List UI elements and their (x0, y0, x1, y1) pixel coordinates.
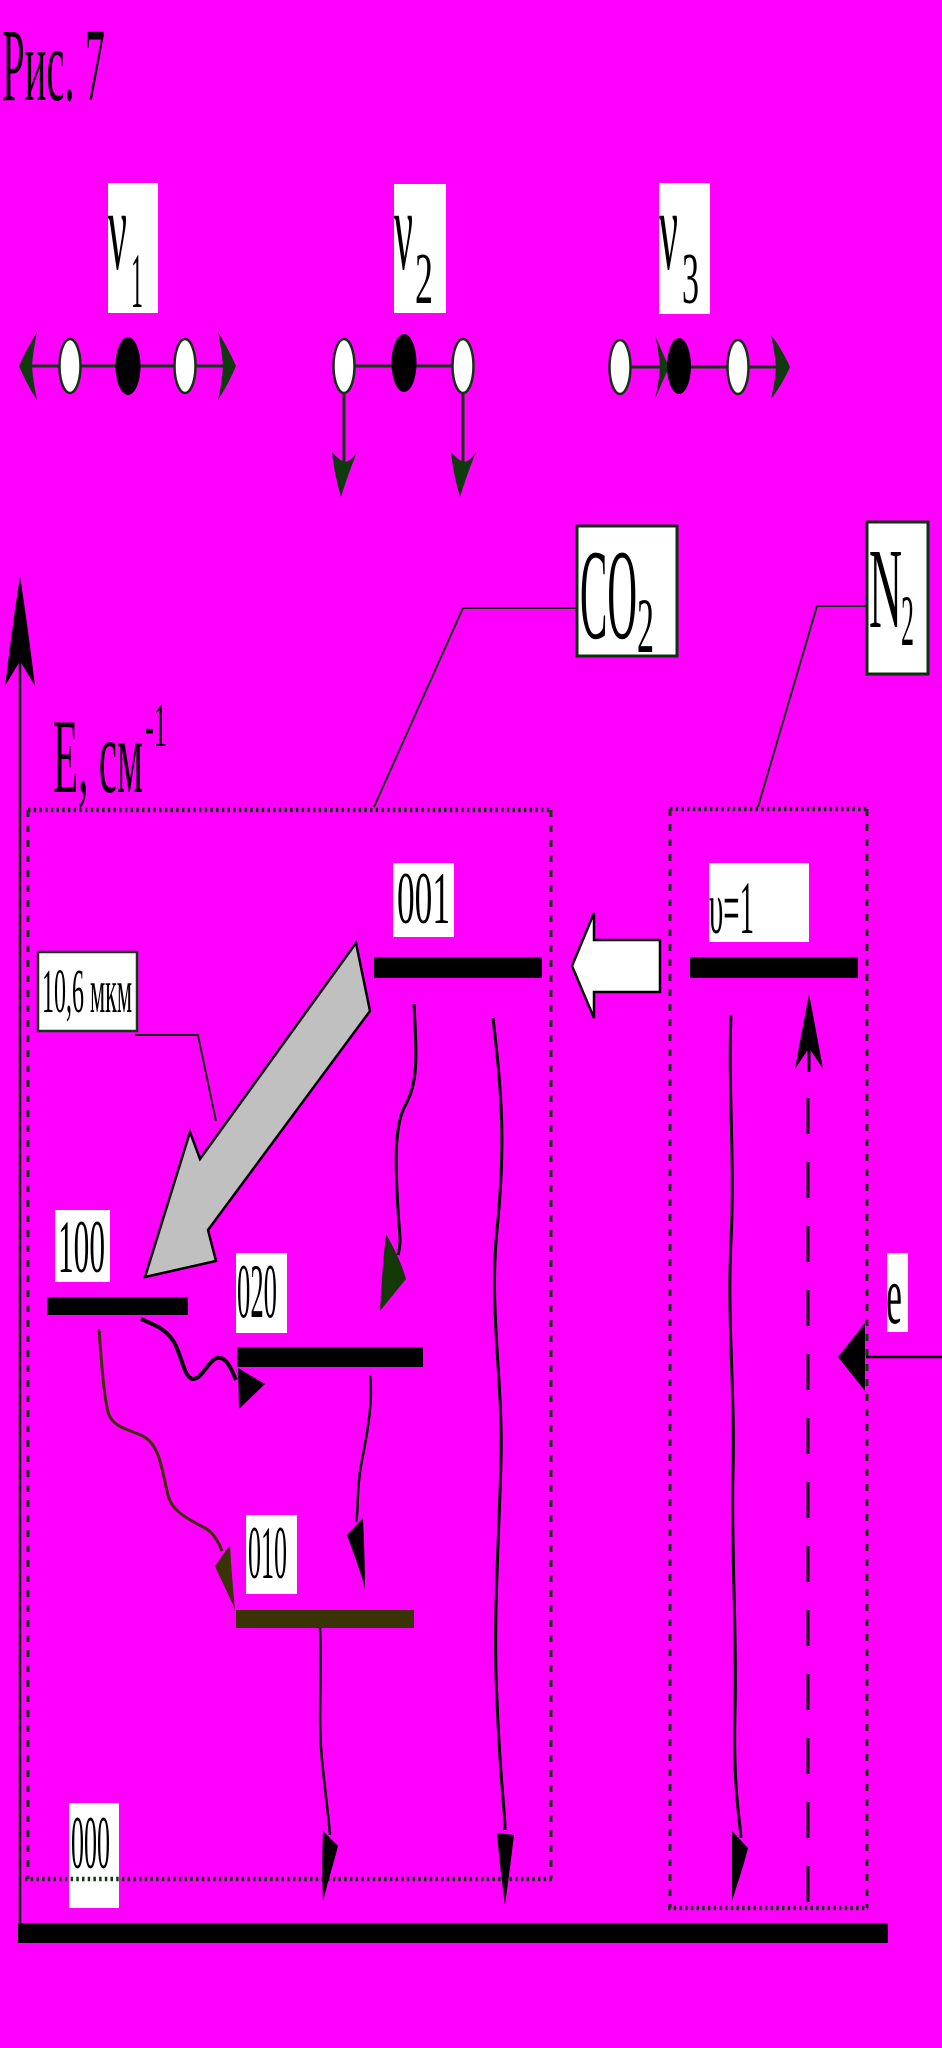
nu1 bond line (24, 365, 232, 368)
arrowhead 001 to 000 (497, 1833, 514, 1905)
energy axis line (19, 660, 22, 1923)
10,6 mkm label box (38, 952, 137, 1031)
nu2 right down arrowhead (451, 452, 476, 497)
wavy decay 020 to 010 (356, 1375, 371, 1522)
N2 dotted box left (669, 809, 672, 1908)
10,6 mkm leader line (135, 1035, 216, 1121)
svg-text:Е, см: Е, см (53, 698, 143, 815)
ground state thick bar (18, 1923, 888, 1943)
svg-text:100: 100 (58, 1206, 105, 1289)
e label box (887, 1253, 908, 1332)
010 label box (246, 1515, 297, 1594)
svg-text:001: 001 (397, 858, 450, 940)
nu3 middle arrowhead (655, 335, 669, 399)
N2 dotted box top (670, 807, 867, 812)
wavy decay 010 to 000 (320, 1628, 330, 1835)
010 level bar (236, 1610, 414, 1628)
e-beam dashed excitation line (807, 1098, 810, 1905)
N2 leader line (758, 606, 867, 807)
nu3 bond line (610, 366, 788, 369)
nu3 C atom (667, 338, 691, 394)
nu1 O atom right (175, 339, 196, 393)
mode nu3 label box (659, 183, 710, 314)
nu2 left displacement line (343, 392, 346, 462)
svg-text:ν: ν (659, 167, 678, 294)
white pump arrow N2 to CO2 (572, 913, 660, 1018)
svg-text:e: e (886, 1249, 902, 1342)
svg-text:ν: ν (108, 167, 127, 294)
arrowhead 100 to 020 (238, 1368, 265, 1409)
e-beam up arrowhead (795, 994, 823, 1069)
e incoming line (866, 1356, 942, 1359)
nu3 O atom left (610, 340, 631, 394)
N2 molecule label box (867, 522, 928, 674)
svg-text:ν: ν (394, 167, 413, 294)
mode nu1 label box (108, 183, 158, 313)
laser transition gray arrow (145, 943, 370, 1277)
v=1 level bar (690, 957, 858, 978)
e arrowhead (838, 1323, 865, 1391)
svg-text:CO: CO (580, 523, 637, 666)
wavy decay 100 to 010 (99, 1329, 222, 1551)
arrowhead N2 v1 to 0 (732, 1831, 748, 1901)
100 level bar (47, 1297, 188, 1315)
001 label box (393, 863, 454, 937)
CO2 dotted box top (28, 808, 551, 813)
svg-text:Рис. 7: Рис. 7 (2, 8, 105, 123)
CO2 molecule label box (577, 526, 677, 656)
svg-text:2: 2 (637, 582, 654, 669)
nu3 right arrowhead (771, 335, 790, 399)
v=1 label box (709, 863, 809, 942)
nu2 left down arrowhead (332, 452, 357, 497)
nu2 O atom left (334, 339, 355, 393)
arrowhead 001 to 020 (380, 1234, 406, 1311)
nu1 left arrowhead (19, 332, 37, 400)
N2 dotted box right (866, 809, 869, 1908)
CO2 dotted box bottom (25, 1877, 552, 1882)
arrowhead 100 to 010 (215, 1545, 235, 1610)
svg-text:000: 000 (71, 1802, 110, 1885)
wavy decay 001 to 000 (493, 1018, 505, 1830)
svg-text:2: 2 (415, 238, 433, 319)
svg-text:3: 3 (682, 238, 699, 319)
CO2 dotted box left (27, 810, 30, 1879)
svg-text:1: 1 (131, 237, 143, 324)
svg-text:010: 010 (248, 1512, 287, 1595)
CO2 leader line (374, 608, 577, 807)
nu1 C atom (116, 337, 141, 395)
e-beam arrow stem (808, 1048, 811, 1072)
wavy decay 001 to 020 (396, 1004, 416, 1255)
nu2 right displacement line (462, 392, 465, 462)
001 level bar (374, 957, 542, 978)
000 label box (under dotted line) (69, 1803, 119, 1908)
svg-text:-1: -1 (145, 692, 167, 760)
nu2 O atom right (453, 339, 474, 393)
nu1 right arrowhead (218, 332, 236, 400)
wavy decay 100 to 020 (141, 1319, 236, 1380)
svg-text:10,6 мкм: 10,6 мкм (42, 958, 132, 1026)
wavy decay N2 v1 to 0 (730, 1015, 741, 1838)
020 label box (236, 1253, 287, 1333)
nu2 bond line (344, 365, 463, 368)
svg-text:N: N (869, 525, 902, 652)
svg-text:υ=1: υ=1 (709, 867, 754, 950)
arrowhead 010 to 000 (322, 1831, 338, 1902)
svg-text:2: 2 (901, 581, 914, 661)
nu1 O atom left (60, 339, 81, 393)
CO2 dotted box right (550, 810, 553, 1879)
arrowhead 020 to 010 (347, 1518, 365, 1589)
100 label box (55, 1210, 110, 1282)
nu2 C atom (392, 334, 417, 392)
N2 dotted box bottom (668, 1906, 868, 1911)
020 level bar (237, 1347, 423, 1367)
svg-text:020: 020 (237, 1248, 277, 1334)
nu3 O atom right (728, 340, 749, 394)
mode nu2 label box (394, 184, 446, 313)
energy axis arrowhead (5, 576, 35, 686)
